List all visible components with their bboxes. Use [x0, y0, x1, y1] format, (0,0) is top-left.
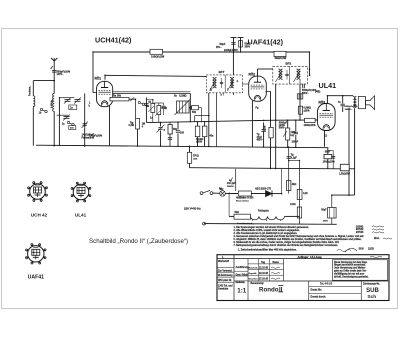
svg-text:2x50µF/350V: 2x50µF/350V — [224, 50, 238, 52]
svg-text:5000pF±10%: 5000pF±10% — [302, 89, 317, 92]
svg-text:7. Netzspannungsumschaltung d: 7. Netzspannungsumschaltung durch Umlöte… — [234, 244, 339, 247]
resistor R19 — [229, 215, 234, 217]
trimmer capacitor C8 — [130, 97, 134, 101]
svg-text:Einh.: Einh. — [374, 238, 380, 240]
trimmer capacitor C3 — [75, 99, 81, 101]
resistor R20a — [297, 190, 302, 200]
svg-text:UAF41: UAF41 — [28, 275, 45, 281]
wire B+ right drop — [308, 52, 310, 76]
capacitor C18 tone — [342, 95, 344, 97]
resistor R9b vertical — [202, 126, 207, 137]
svg-text:RÖ3: RÖ3 — [319, 100, 326, 105]
variable capacitor C7 arrow — [82, 122, 89, 129]
svg-text:0,5MΩ: 0,5MΩ — [304, 107, 311, 110]
svg-text:UCH41(42): UCH41(42) — [95, 36, 132, 45]
switch contacts wave band — [40, 108, 42, 110]
svg-text:3. Alle Kondensatoren in pF,: 3. Alle Kondensatoren in pF, Elektrolyt … — [234, 232, 298, 235]
svg-text:Eisen-Urdox: Eisen-Urdox — [236, 200, 250, 202]
resistor R3 anode — [110, 98, 112, 100]
wire osc drop2 — [194, 116, 196, 122]
svg-text:Feldspule: Feldspule — [258, 211, 269, 213]
titleblock outer — [217, 255, 389, 301]
socket diagram UCH42 — [30, 184, 46, 200]
svg-text:RPZ-plan Nr.: RPZ-plan Nr. — [218, 280, 232, 282]
titleblock left column — [233, 255, 235, 301]
capacitor C12 — [176, 130, 180, 132]
svg-text:11/52: 11/52 — [368, 248, 375, 251]
svg-text:UL41: UL41 — [319, 81, 337, 90]
coil L6 — [297, 69, 299, 79]
svg-text:0,1µF: 0,1µF — [291, 156, 298, 159]
svg-text:UL41: UL41 — [75, 213, 87, 218]
svg-text:100Ω±10%: 100Ω±10% — [304, 124, 317, 127]
capacitor C9b — [161, 105, 165, 107]
svg-text:370Ω: 370Ω — [193, 156, 199, 158]
wire antenna down — [53, 64, 55, 94]
wire detector — [299, 80, 301, 84]
coil L1 input — [33, 96, 35, 107]
tube U1 pin wire — [109, 105, 111, 145]
wire Ro3 cathode pin — [324, 130, 326, 147]
svg-text:1:1: 1:1 — [237, 287, 247, 294]
svg-text:0,3M: 0,3M — [129, 124, 134, 127]
svg-text:2kΩ: 2kΩ — [292, 183, 297, 186]
resistor R15 heater dropper — [187, 152, 191, 163]
svg-text:4. Gemessen zwischen Fahrgest: 4. Gemessen zwischen Fahrgestell und Pun… — [234, 235, 365, 238]
svg-text:5. Abgleich: 468kHz Zf, dann: 5. Abgleich: 468kHz Zf, dann 1400kHz und… — [234, 238, 362, 241]
svg-text:Anfänger: Anfänger — [298, 256, 309, 259]
tube U2 RÖ2 UAF41 — [249, 76, 267, 101]
wire trimmer bus 2 — [57, 114, 68, 116]
wire B+ riser left — [92, 52, 94, 93]
wire Ro3 anode to transformer — [326, 96, 328, 103]
capacitor C13 in T1 — [220, 81, 223, 83]
resistor R21 osc feed — [169, 122, 171, 146]
mid AVC rail — [146, 120, 275, 122]
wire drop right — [189, 93, 191, 122]
fine print box — [333, 260, 388, 281]
capacitor C23 electrolytic 50uF — [331, 195, 333, 207]
svg-text:50k: 50k — [192, 111, 197, 114]
tube U1 RÖ1 UCH41 — [97, 81, 113, 106]
svg-text:5kΩ: 5kΩ — [235, 212, 240, 214]
svg-text:6. Skalenseil 2x um die Achse: 6. Skalenseil 2x um die Achse, Feder rec… — [234, 241, 340, 244]
svg-text:9,5Ω: 9,5Ω — [290, 203, 295, 206]
svg-text:4,2k: 4,2k — [303, 192, 308, 195]
wire osc drop — [145, 98, 147, 123]
coil L4 — [230, 78, 232, 88]
svg-text:Tag: Tag — [261, 262, 266, 264]
svg-text:±20%: ±20% — [304, 110, 310, 112]
svg-text:1. Die Spannungen wurden mit: 1. Die Spannungen wurden mit einem Röhre… — [234, 226, 310, 229]
coil L5 — [279, 69, 281, 79]
svg-text:6-8Wdg: 6-8Wdg — [51, 99, 53, 108]
socket diagram UAF41 — [28, 246, 44, 262]
svg-text:47pF: 47pF — [257, 136, 263, 139]
wire IF1 jog — [216, 93, 218, 147]
wire trimmer bus 1 — [59, 97, 74, 99]
svg-text:UAF41(42): UAF41(42) — [248, 38, 284, 47]
date/name table — [248, 263, 284, 265]
socket diagram UL41 — [73, 184, 89, 200]
approval curve mark — [345, 248, 357, 252]
svg-text:RÖ2: RÖ2 — [249, 72, 256, 77]
resistor R13 100 ohm on AF line — [305, 118, 316, 122]
svg-text:100pF: 100pF — [292, 142, 299, 144]
svg-text:0,1MΩ: 0,1MΩ — [196, 138, 203, 141]
svg-text:Werkstoff: Werkstoff — [218, 260, 229, 263]
resistor R7b cluster vertical — [157, 106, 161, 115]
junction dots — [233, 51, 235, 53]
wire stub — [289, 160, 300, 162]
IF transformer T1 BFT dashed box — [206, 75, 242, 93]
choke L7 field coil — [251, 216, 285, 219]
svg-text:Rondo: Rondo — [259, 286, 279, 293]
svg-text:Gesehen: Gesehen — [249, 278, 259, 280]
wire tuning capacitor — [84, 94, 86, 147]
antenna — [53, 61, 55, 64]
resistor R12 diode load — [269, 127, 273, 137]
U2 pin wire — [251, 101, 253, 147]
ersatz rows — [308, 281, 310, 301]
oscillator coil box L8 — [177, 101, 190, 113]
oscillator variable capacitor C11 — [160, 122, 162, 126]
wire B+ top rail — [93, 51, 309, 53]
svg-text:Zf: Zf — [210, 90, 212, 92]
resistor R6 cluster vertical — [151, 104, 155, 113]
wire IF2 secondary down — [275, 84, 277, 168]
resistor R10 0.5M — [299, 106, 303, 114]
svg-text:0,05µF±20%: 0,05µF±20% — [89, 135, 103, 138]
wire heater rail — [190, 168, 341, 169]
speaker wires — [341, 95, 343, 97]
svg-text:1M: 1M — [142, 123, 145, 126]
svg-text:50µF: 50µF — [321, 210, 327, 212]
svg-text:967/42: 967/42 — [356, 228, 364, 231]
svg-text:BF2: BF2 — [286, 62, 292, 66]
resistor R9a vertical — [195, 126, 200, 137]
resistor R14 150 ohm cathode — [327, 148, 329, 155]
wire rectifier riser — [281, 194, 283, 217]
svg-text:±5%: ±5% — [193, 159, 197, 161]
trimmer arrows in T1 — [210, 80, 217, 91]
svg-text:Name: Name — [273, 262, 280, 264]
wire anode Ro1 — [104, 75, 106, 79]
titleblock header row — [217, 258, 389, 260]
resistor R17 — [287, 181, 291, 191]
trimmer capacitor C2 — [65, 99, 71, 101]
speaker LS — [358, 97, 365, 109]
capacitor C15 series — [302, 84, 304, 88]
svg-text:140V~: 140V~ — [57, 73, 65, 76]
diode plate wire to AF — [266, 90, 271, 92]
resistor R20 — [299, 161, 301, 225]
capacitor C1 500pF antenna series — [52, 70, 56, 72]
wire chassis ground rail — [36, 145, 328, 148]
capacitor C6 — [69, 126, 76, 130]
wire antenna to input coil — [33, 79, 55, 81]
wire ps bottom rail — [204, 223, 337, 226]
svg-text:1. Zwischenkreisbandfilter Ma: 1. Zwischenkreisbandfilter May 468 kHz a… — [238, 249, 297, 252]
T1 pin wires — [208, 93, 210, 147]
resistor R1 100 ohm on B+ rail — [150, 49, 163, 54]
svg-text:0,1MΩ: 0,1MΩ — [179, 95, 187, 98]
capacitor C22 — [288, 148, 290, 194]
svg-text:Schaltbild „Rondo II“ („Zauber: Schaltbild „Rondo II“ („Zauberdose“) — [89, 238, 188, 245]
capacitor C20 50uF to rail — [233, 38, 235, 52]
capacitor C4 padder — [69, 105, 77, 110]
U2 grid wire — [242, 83, 248, 85]
dial lamp La — [220, 191, 226, 197]
svg-text:±20%: ±20% — [196, 142, 202, 144]
antenna lead-in arrow — [51, 66, 54, 69]
svg-text:50µF: 50µF — [325, 151, 331, 154]
resistor R8 osc grid — [192, 106, 199, 110]
resistor R7 vertical — [136, 118, 140, 129]
resistor R2 on B+ rail right — [274, 51, 286, 56]
svg-text:350V: 350V — [323, 221, 329, 223]
trimmer capacitor C5 — [64, 116, 70, 118]
coil L2 antenna winding — [53, 94, 55, 112]
svg-text:150Ω±10%: 150Ω±10% — [323, 161, 336, 164]
svg-text:500pF±10%: 500pF±10% — [57, 70, 71, 73]
capacitor C19 50uF cathode — [328, 150, 333, 152]
tube U3 RÖ3 UL41 — [318, 104, 336, 131]
svg-text:Sch: Sch — [367, 294, 376, 300]
trimmer arrows in T2 — [276, 71, 283, 82]
mains terminal 1 — [200, 192, 203, 195]
resistor R16 1.5k — [340, 164, 349, 171]
svg-text:0,3M: 0,3M — [264, 126, 267, 131]
svg-text:267/43: 267/43 — [356, 231, 364, 234]
svg-text:263/42: 263/42 — [356, 225, 364, 228]
capacitor C9 — [144, 103, 148, 105]
potentiometer P1 volume — [286, 128, 290, 140]
svg-text:220 V≈50 Hz: 220 V≈50 Hz — [184, 207, 201, 211]
svg-text:log: log — [291, 135, 295, 137]
svg-text:RÖ1: RÖ1 — [95, 75, 102, 80]
switch contact 2b — [190, 107, 192, 109]
wire rail into T1 — [232, 52, 234, 75]
svg-text:500V~: 500V~ — [279, 127, 286, 129]
field coil wires down — [348, 108, 350, 195]
svg-text:Ra 30k: Ra 30k — [113, 94, 122, 97]
IF transformer T2 dashed box — [273, 66, 308, 84]
svg-text:5000V~: 5000V~ — [227, 186, 235, 188]
benennung row — [248, 280, 389, 282]
svg-text:15V~: 15V~ — [216, 46, 222, 49]
mains switch Sw — [210, 192, 213, 195]
svg-text:40a: 40a — [209, 135, 214, 138]
coil L3 — [213, 78, 215, 88]
capacitor C16 electrolytic — [297, 94, 303, 99]
capacitor C14 in T2 — [285, 73, 288, 75]
svg-text:2. Alle Widerstände ±10%, sow: 2. Alle Widerstände ±10%, soweit nicht a… — [234, 229, 301, 232]
output transformer T2 — [353, 97, 355, 108]
wire tap — [58, 97, 60, 146]
wire heater to mains — [235, 169, 237, 191]
wire tube2 anode to IF2 — [257, 69, 259, 76]
svg-text:150: 150 — [180, 132, 185, 135]
svg-text:350V: 350V — [245, 46, 251, 49]
capacitor C17 — [294, 131, 298, 133]
signature above titleblock — [337, 250, 351, 252]
capacitor C21 electrolytic to rail — [240, 38, 242, 52]
svg-text:1,5kΩ/2W: 1,5kΩ/2W — [339, 173, 351, 176]
resistor R18 NTC — [225, 192, 238, 194]
scale 1:1 — [247, 259, 249, 301]
svg-text:Zeichnungs-Nr.: Zeichnungs-Nr. — [363, 284, 380, 286]
wire grid line pair — [112, 91, 190, 93]
wire field coil top — [332, 194, 355, 196]
svg-text:BFT: BFT — [219, 70, 225, 74]
wire B+ node — [281, 168, 283, 193]
capacitor C24 AF coupling — [263, 122, 265, 129]
wire to choke — [228, 193, 230, 216]
trimmer arrows cluster — [155, 110, 161, 116]
svg-text:2x0,1µF: 2x0,1µF — [227, 183, 236, 185]
switch contact 2a — [138, 101, 140, 103]
svg-text:±20%: ±20% — [279, 125, 285, 127]
switch contact 1a — [67, 121, 69, 123]
svg-text:5000pF: 5000pF — [279, 121, 288, 124]
mains terminal 2 — [203, 222, 206, 225]
svg-text:UCH 42: UCH 42 — [31, 213, 48, 218]
svg-text:SUB: SUB — [366, 288, 379, 294]
rectifier D1 — [251, 193, 265, 195]
svg-text:Benennung:: Benennung: — [251, 283, 265, 285]
wire AF line — [276, 119, 318, 121]
